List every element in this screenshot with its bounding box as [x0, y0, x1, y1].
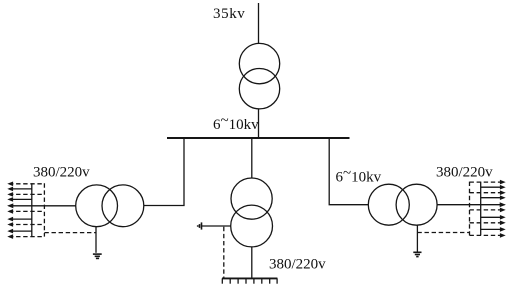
svg-text:380/220v: 380/220v [436, 164, 493, 180]
wire: right branch drop from bus [329, 138, 368, 205]
feeder row L4 (solid) [7, 197, 32, 202]
wire: T4 secondary main line to right switchboard [437, 204, 504, 206]
svg-text:35kv: 35kv [213, 6, 245, 22]
wire: T4 neutral to ground [416, 225, 418, 252]
ground (middle, rotated left) [198, 222, 202, 229]
ground (right) [413, 252, 421, 256]
transformer T4 (right) [368, 184, 437, 225]
wire: dashed neutral down to low-voltage board [223, 227, 225, 278]
wire: T2 secondary main line to left switchboard [9, 205, 76, 207]
feeder row R9 (dashed, bottom) [470, 233, 506, 238]
arrow: main feeder right [500, 202, 506, 207]
busbar: left switchboard solid bar [31, 183, 33, 236]
busbar: right switchboard solid bar [480, 182, 482, 236]
feeder stub B2 [229, 278, 231, 283]
wire: T3 neutral to earth (left) [202, 225, 231, 227]
feeder row R5 (dashed) [470, 208, 506, 213]
wire: left branch drop from bus [144, 138, 184, 206]
feeder row L6 (solid) [7, 217, 32, 222]
ground (left) [93, 254, 102, 258]
busbar: right switchboard dashed bar [469, 182, 471, 236]
wire: T2 neutral to ground [95, 227, 97, 253]
transformer T1 35kv/6~10kv [239, 43, 279, 109]
svg-text:380/220v: 380/220v [269, 257, 326, 273]
feeder row L9 (dashed, bottom) [7, 234, 44, 239]
feeder row L5 (dashed) [7, 209, 44, 214]
busbar: left switchboard dashed bar [43, 183, 45, 236]
bus 6~10kv [167, 137, 350, 139]
wire: dashed neutral link to T4 ground point [417, 232, 469, 234]
wire: middle branch drop from bus [251, 138, 253, 178]
svg-text:6~10kv: 6~10kv [336, 166, 382, 186]
feeder row L3 (dashed) [7, 192, 44, 197]
feeder stub B8 [276, 278, 278, 283]
feeder row R6 (solid) [481, 215, 506, 220]
arrow: main feeder left [7, 203, 13, 208]
feeder row L7 (dashed) [7, 222, 44, 227]
feeder row L1 (dashed) [7, 182, 44, 187]
wire: T1 secondary to bus [258, 109, 260, 138]
feeder stub B6 [261, 278, 263, 283]
feeder row R8 (solid) [481, 227, 506, 232]
feeder stub B1 [221, 278, 223, 283]
wire: dashed neutral link to T2 ground point [44, 232, 96, 234]
feeder row R1 (dashed) [470, 180, 506, 185]
feeder row R3 (dashed) [470, 190, 506, 195]
wire: 35kv incoming feeder [258, 3, 260, 44]
feeder stub B5 [253, 278, 255, 283]
feeder row R4 (solid) [481, 195, 506, 200]
svg-text:380/220v: 380/220v [33, 165, 90, 181]
transformer T3 (middle) [231, 178, 273, 247]
transformer T2 (left) [76, 185, 144, 227]
busbar: bottom switchboard [222, 277, 277, 279]
feeder row R2 (solid) [481, 185, 506, 190]
feeder row R7 (dashed) [470, 221, 506, 226]
feeder row L2 (solid) [7, 187, 32, 192]
svg-text:6~10kv: 6~10kv [213, 113, 259, 133]
feeder stub B3 [237, 278, 239, 283]
feeder stub B4 [245, 278, 247, 283]
wire: T3 secondary down [251, 247, 253, 278]
feeder stub B7 [269, 278, 271, 283]
feeder row L8 (solid) [7, 229, 32, 234]
